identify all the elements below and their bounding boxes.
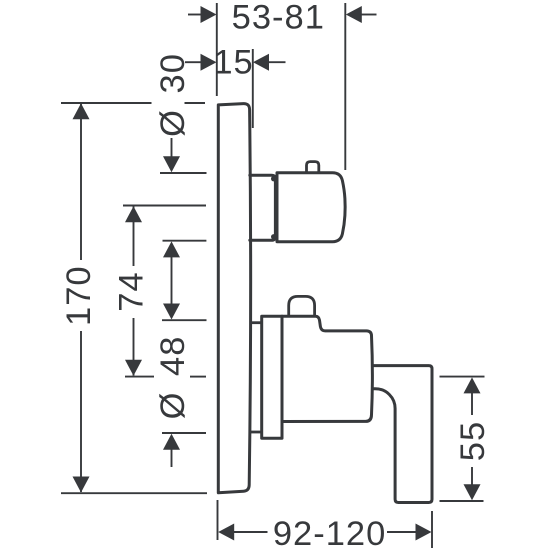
svg-text:74: 74: [113, 271, 151, 311]
extension line handle bottom (d30 bottom): [163, 240, 207, 242]
extension line plate top (170 top): [61, 102, 152, 104]
arrow 170 bottom: [73, 477, 90, 493]
arrow d30 bottom up: [163, 241, 180, 257]
extension line axis upper valve (74 top): [123, 205, 206, 207]
svg-text:15: 15: [213, 44, 253, 82]
fillet dot neck top: [271, 176, 276, 181]
arrow d30 down: [163, 156, 180, 172]
dim line between handle bottom and sleeve top: [171, 256, 173, 304]
svg-text:Ø 48: Ø 48: [154, 336, 192, 420]
upper valve neck: [250, 175, 276, 240]
dim d30 line below text: [171, 138, 173, 157]
arrow 15 right: [253, 54, 269, 71]
arrow 55 top: [464, 377, 481, 393]
svg-text:92-120: 92-120: [273, 515, 386, 548]
escutcheon plate: [218, 104, 250, 493]
arrow d48 bottom up: [163, 434, 180, 450]
extension line sleeve top (d48 top): [162, 319, 207, 321]
fillet dot neck bottom: [271, 234, 276, 239]
dim 170 line: [80, 104, 82, 260]
dim d48 tail below: [171, 448, 173, 467]
svg-text:55: 55: [454, 421, 492, 461]
connector bar upper valve to plate (top): [250, 321, 262, 324]
arrow 74 bottom: [125, 360, 142, 376]
arrow 92-120 left: [218, 524, 234, 541]
dim 74 line: [133, 207, 135, 267]
extension line 53-81 right: [344, 3, 346, 170]
connector bar (bottom): [250, 431, 262, 434]
arrow 55 bottom: [464, 484, 481, 500]
lower handle knob: [289, 296, 315, 315]
extension line 15 right: [252, 49, 254, 128]
svg-text:170: 170: [60, 265, 98, 326]
arrow 170 top: [73, 103, 90, 119]
extension line plate bottom (170 bottom): [61, 492, 207, 494]
svg-text:Ø 30: Ø 30: [154, 53, 192, 137]
upper handle top nub: [307, 162, 319, 173]
extension line lever axis right (55 top): [440, 376, 485, 378]
arrow 53-81 left: [201, 6, 217, 23]
arrow 74 top: [125, 206, 142, 222]
extension line sleeve bottom (d48 bottom): [162, 432, 206, 434]
upper valve handle: [277, 173, 345, 242]
dim 92-120 tails: [234, 531, 268, 533]
arrow d48 top down: [163, 304, 180, 320]
arrow 15 left: [201, 54, 217, 71]
dim 15 tails: [185, 61, 201, 63]
wall extension line top: [216, 3, 218, 96]
lower valve sleeve ring: [262, 316, 282, 438]
dim 53-81 tails: [188, 14, 201, 16]
extension line lever right (92-120 right): [431, 511, 433, 548]
extension line lever bottom (55 bottom): [440, 500, 484, 502]
dim 55 line: [471, 393, 473, 416]
wall extension line bottom: [217, 500, 219, 540]
arrow 53-81 right: [346, 6, 362, 23]
arrow 92-120 right: [416, 524, 432, 541]
extension line handle top (d30 top): [160, 172, 207, 174]
lever handle: [372, 366, 433, 503]
svg-text:53-81: 53-81: [232, 0, 325, 36]
lower valve handle body: [282, 316, 372, 421]
extension line axis lower valve (74 bottom / 55 top left): [125, 376, 154, 378]
